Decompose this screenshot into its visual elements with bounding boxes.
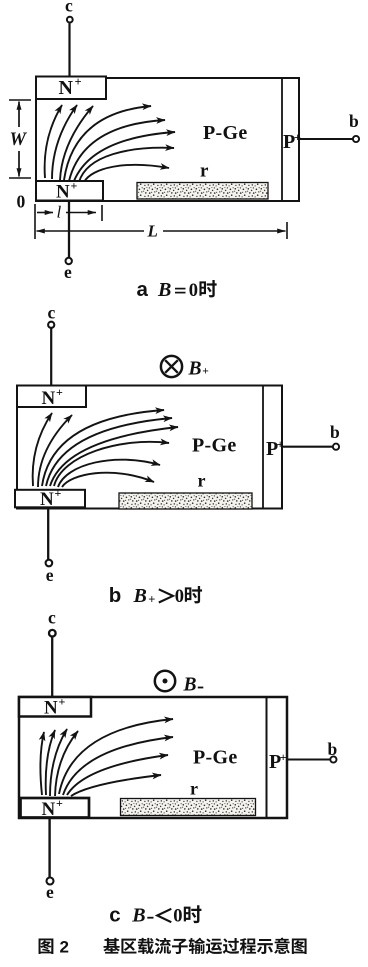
svg-text:+: +: [277, 437, 284, 451]
svg-text:N: N: [56, 182, 70, 203]
svg-text:e: e: [46, 882, 54, 902]
svg-text:+: +: [71, 179, 78, 193]
N+ emitter region (fig b): [15, 486, 85, 510]
svg-text:N: N: [59, 77, 74, 99]
svg-text:r: r: [200, 161, 209, 182]
svg-text:0: 0: [17, 192, 26, 212]
magnetic field symbol B- out of page (fig c): [155, 671, 204, 696]
svg-text:r: r: [190, 779, 198, 799]
svg-text:+: +: [56, 796, 63, 810]
svg-text:B: B: [183, 675, 197, 696]
magnetic field symbol B+ into page (fig b): [161, 356, 209, 380]
svg-text:b: b: [328, 739, 338, 759]
terminal e (fig a): [64, 201, 72, 282]
terminal b (fig c): [287, 739, 338, 763]
svg-text:B: B: [188, 359, 202, 380]
P+ contact strip (fig c): [267, 697, 287, 818]
svg-text:B: B: [133, 585, 147, 607]
base region box (fig c): [19, 697, 287, 818]
svg-text:L: L: [147, 222, 158, 241]
N+ collector region (fig c): [19, 695, 91, 719]
dimension l (fig a): [35, 203, 102, 240]
svg-text:b: b: [330, 422, 340, 442]
svg-text:2: 2: [60, 938, 69, 957]
svg-text:0: 0: [175, 587, 184, 607]
carrier trajectory arrows (fig a): [45, 105, 175, 182]
svg-text:P-Ge: P-Ge: [203, 122, 248, 144]
N+ emitter region (fig a): [36, 179, 103, 203]
svg-text:+: +: [202, 366, 209, 378]
figure caption: 图2 基区载流子输运过程示意图: [39, 938, 307, 957]
svg-text:b: b: [109, 584, 122, 607]
svg-text:0: 0: [189, 281, 198, 301]
svg-text:B: B: [157, 279, 171, 301]
terminal c (fig c): [48, 608, 56, 697]
svg-text:B: B: [131, 905, 145, 927]
svg-text:P-Ge: P-Ge: [193, 747, 238, 769]
terminal c (fig a): [65, 0, 73, 77]
svg-text:N: N: [42, 799, 56, 820]
svg-text:a: a: [137, 278, 149, 301]
svg-text:P-Ge: P-Ge: [192, 435, 237, 457]
N+ collector region (fig a): [36, 75, 106, 99]
dimension W (fig a): [9, 100, 31, 178]
svg-text:+: +: [59, 695, 66, 709]
resistive region r (fig a): [137, 161, 268, 200]
svg-text:+: +: [148, 593, 155, 607]
P-Ge label (fig c): [193, 747, 238, 769]
base region box (fig b): [17, 386, 282, 509]
P-Ge label (fig a): [203, 122, 248, 144]
svg-text:c: c: [65, 0, 73, 16]
svg-text:+: +: [55, 486, 62, 500]
svg-text:c: c: [48, 303, 56, 323]
svg-text:+: +: [280, 750, 287, 764]
terminal b (fig b): [282, 422, 340, 450]
P-Ge label (fig b): [192, 435, 237, 457]
svg-text:N: N: [44, 698, 58, 719]
svg-text:N: N: [40, 489, 54, 510]
terminal e (fig c): [46, 818, 54, 902]
svg-text:e: e: [46, 565, 54, 585]
svg-text:c: c: [48, 608, 56, 628]
N+ collector region (fig b): [17, 385, 86, 409]
svg-text:b: b: [349, 111, 359, 131]
N+ emitter region (fig c): [21, 796, 90, 820]
svg-text:W: W: [10, 130, 28, 150]
resistive region r (fig b): [119, 471, 252, 510]
svg-text:c: c: [109, 904, 120, 927]
svg-text:0: 0: [173, 907, 182, 927]
terminal b (fig a): [299, 111, 359, 142]
svg-text:r: r: [198, 471, 206, 491]
svg-text:+: +: [294, 130, 301, 144]
base region box (fig a): [36, 78, 299, 201]
dimension L (fig a): [37, 222, 288, 241]
svg-text:l: l: [57, 203, 62, 222]
caption c: B- < 0 时: [109, 904, 201, 927]
resistive region r (fig c): [121, 779, 256, 816]
origin label 0 (fig a): [17, 192, 26, 212]
carrier trajectory arrows (fig b): [33, 410, 178, 487]
terminal c (fig b): [48, 303, 56, 386]
carrier trajectory arrows (fig c): [40, 719, 173, 796]
P+ contact strip (fig b): [263, 386, 284, 509]
svg-text:+: +: [56, 385, 63, 399]
caption b: B+ > 0 时: [109, 584, 202, 607]
P+ contact strip (fig a): [282, 78, 301, 201]
terminal e (fig b): [46, 509, 54, 586]
svg-text:e: e: [64, 262, 72, 282]
caption a: B = 0 时: [137, 278, 217, 301]
svg-text:+: +: [75, 75, 82, 89]
svg-text:N: N: [42, 388, 56, 409]
